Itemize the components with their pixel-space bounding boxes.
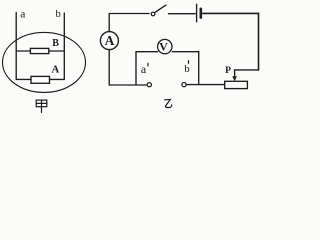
wire (rheostat to terminal b') xyxy=(186,84,224,86)
svg-text:a: a xyxy=(20,8,25,20)
ammeter U1 xyxy=(100,32,118,50)
rheostat P wiper arrowhead xyxy=(232,76,237,81)
battery xyxy=(196,4,198,22)
wire (below ammeter to terminal a') xyxy=(109,50,147,85)
label 乙 xyxy=(165,99,172,107)
wire (voltmeter right leg) xyxy=(198,52,200,85)
svg-text:A: A xyxy=(52,64,60,75)
wire (A row right) xyxy=(50,78,65,80)
wire (B row right) xyxy=(49,50,65,52)
svg-text:P: P xyxy=(225,66,231,76)
wire (A row left) xyxy=(16,78,31,80)
voltmeter U2 xyxy=(136,51,158,53)
svg-text:V: V xyxy=(159,39,168,53)
svg-text:B: B xyxy=(52,38,59,49)
svg-text:a: a xyxy=(141,62,147,76)
wire (lead b vertical) xyxy=(63,13,65,79)
terminal a' xyxy=(147,83,151,87)
terminal b' xyxy=(182,83,186,87)
wire (top-left vertical above ammeter) xyxy=(109,14,149,32)
wire (voltmeter left leg) xyxy=(135,52,137,85)
wire (switch to battery) xyxy=(169,13,196,15)
device 甲 case (ellipse) xyxy=(3,32,86,92)
rheostat P body xyxy=(225,81,248,88)
switch S xyxy=(151,12,155,16)
resistor A xyxy=(31,76,50,83)
wire (lead a vertical) xyxy=(15,13,17,80)
wire (to rheostat wiper) xyxy=(235,70,259,78)
svg-text:A: A xyxy=(105,33,115,48)
label 甲 xyxy=(36,100,47,112)
svg-text:b: b xyxy=(56,9,61,20)
wire (B row left) xyxy=(16,50,30,52)
resistor B xyxy=(30,48,48,53)
wire (battery to top-right corner, down right side) xyxy=(203,13,259,70)
svg-text:b: b xyxy=(184,63,190,75)
